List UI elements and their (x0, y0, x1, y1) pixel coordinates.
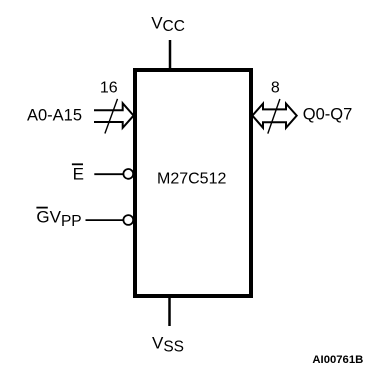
bidirectional data bus arrow Q0-Q7 (252, 104, 296, 128)
bus width slash (16 lines) (105, 99, 118, 134)
IC U1 M27C512 body (135, 70, 251, 296)
wire VSS from pin (168, 296, 171, 326)
svg-text:M27C512: M27C512 (157, 171, 226, 188)
bus width slash (8 lines) (268, 99, 280, 134)
wire GVPP to bubble (86, 219, 124, 221)
wire VCC to pin (169, 40, 172, 70)
svg-text:AI00761B: AI00761B (312, 354, 363, 366)
svg-text:16: 16 (100, 80, 118, 97)
wire E to bubble (94, 173, 123, 175)
overline for E (72, 163, 83, 165)
inverter bubble on G pin (123, 215, 133, 225)
svg-text:E: E (73, 165, 84, 184)
overline for G (36, 207, 47, 209)
svg-text:Q0-Q7: Q0-Q7 (303, 106, 353, 124)
svg-text:A0-A15: A0-A15 (27, 107, 82, 125)
svg-text:8: 8 (271, 80, 280, 97)
inverter bubble on E pin (123, 169, 133, 179)
bus arrow A0-A15 into chip (94, 103, 134, 128)
